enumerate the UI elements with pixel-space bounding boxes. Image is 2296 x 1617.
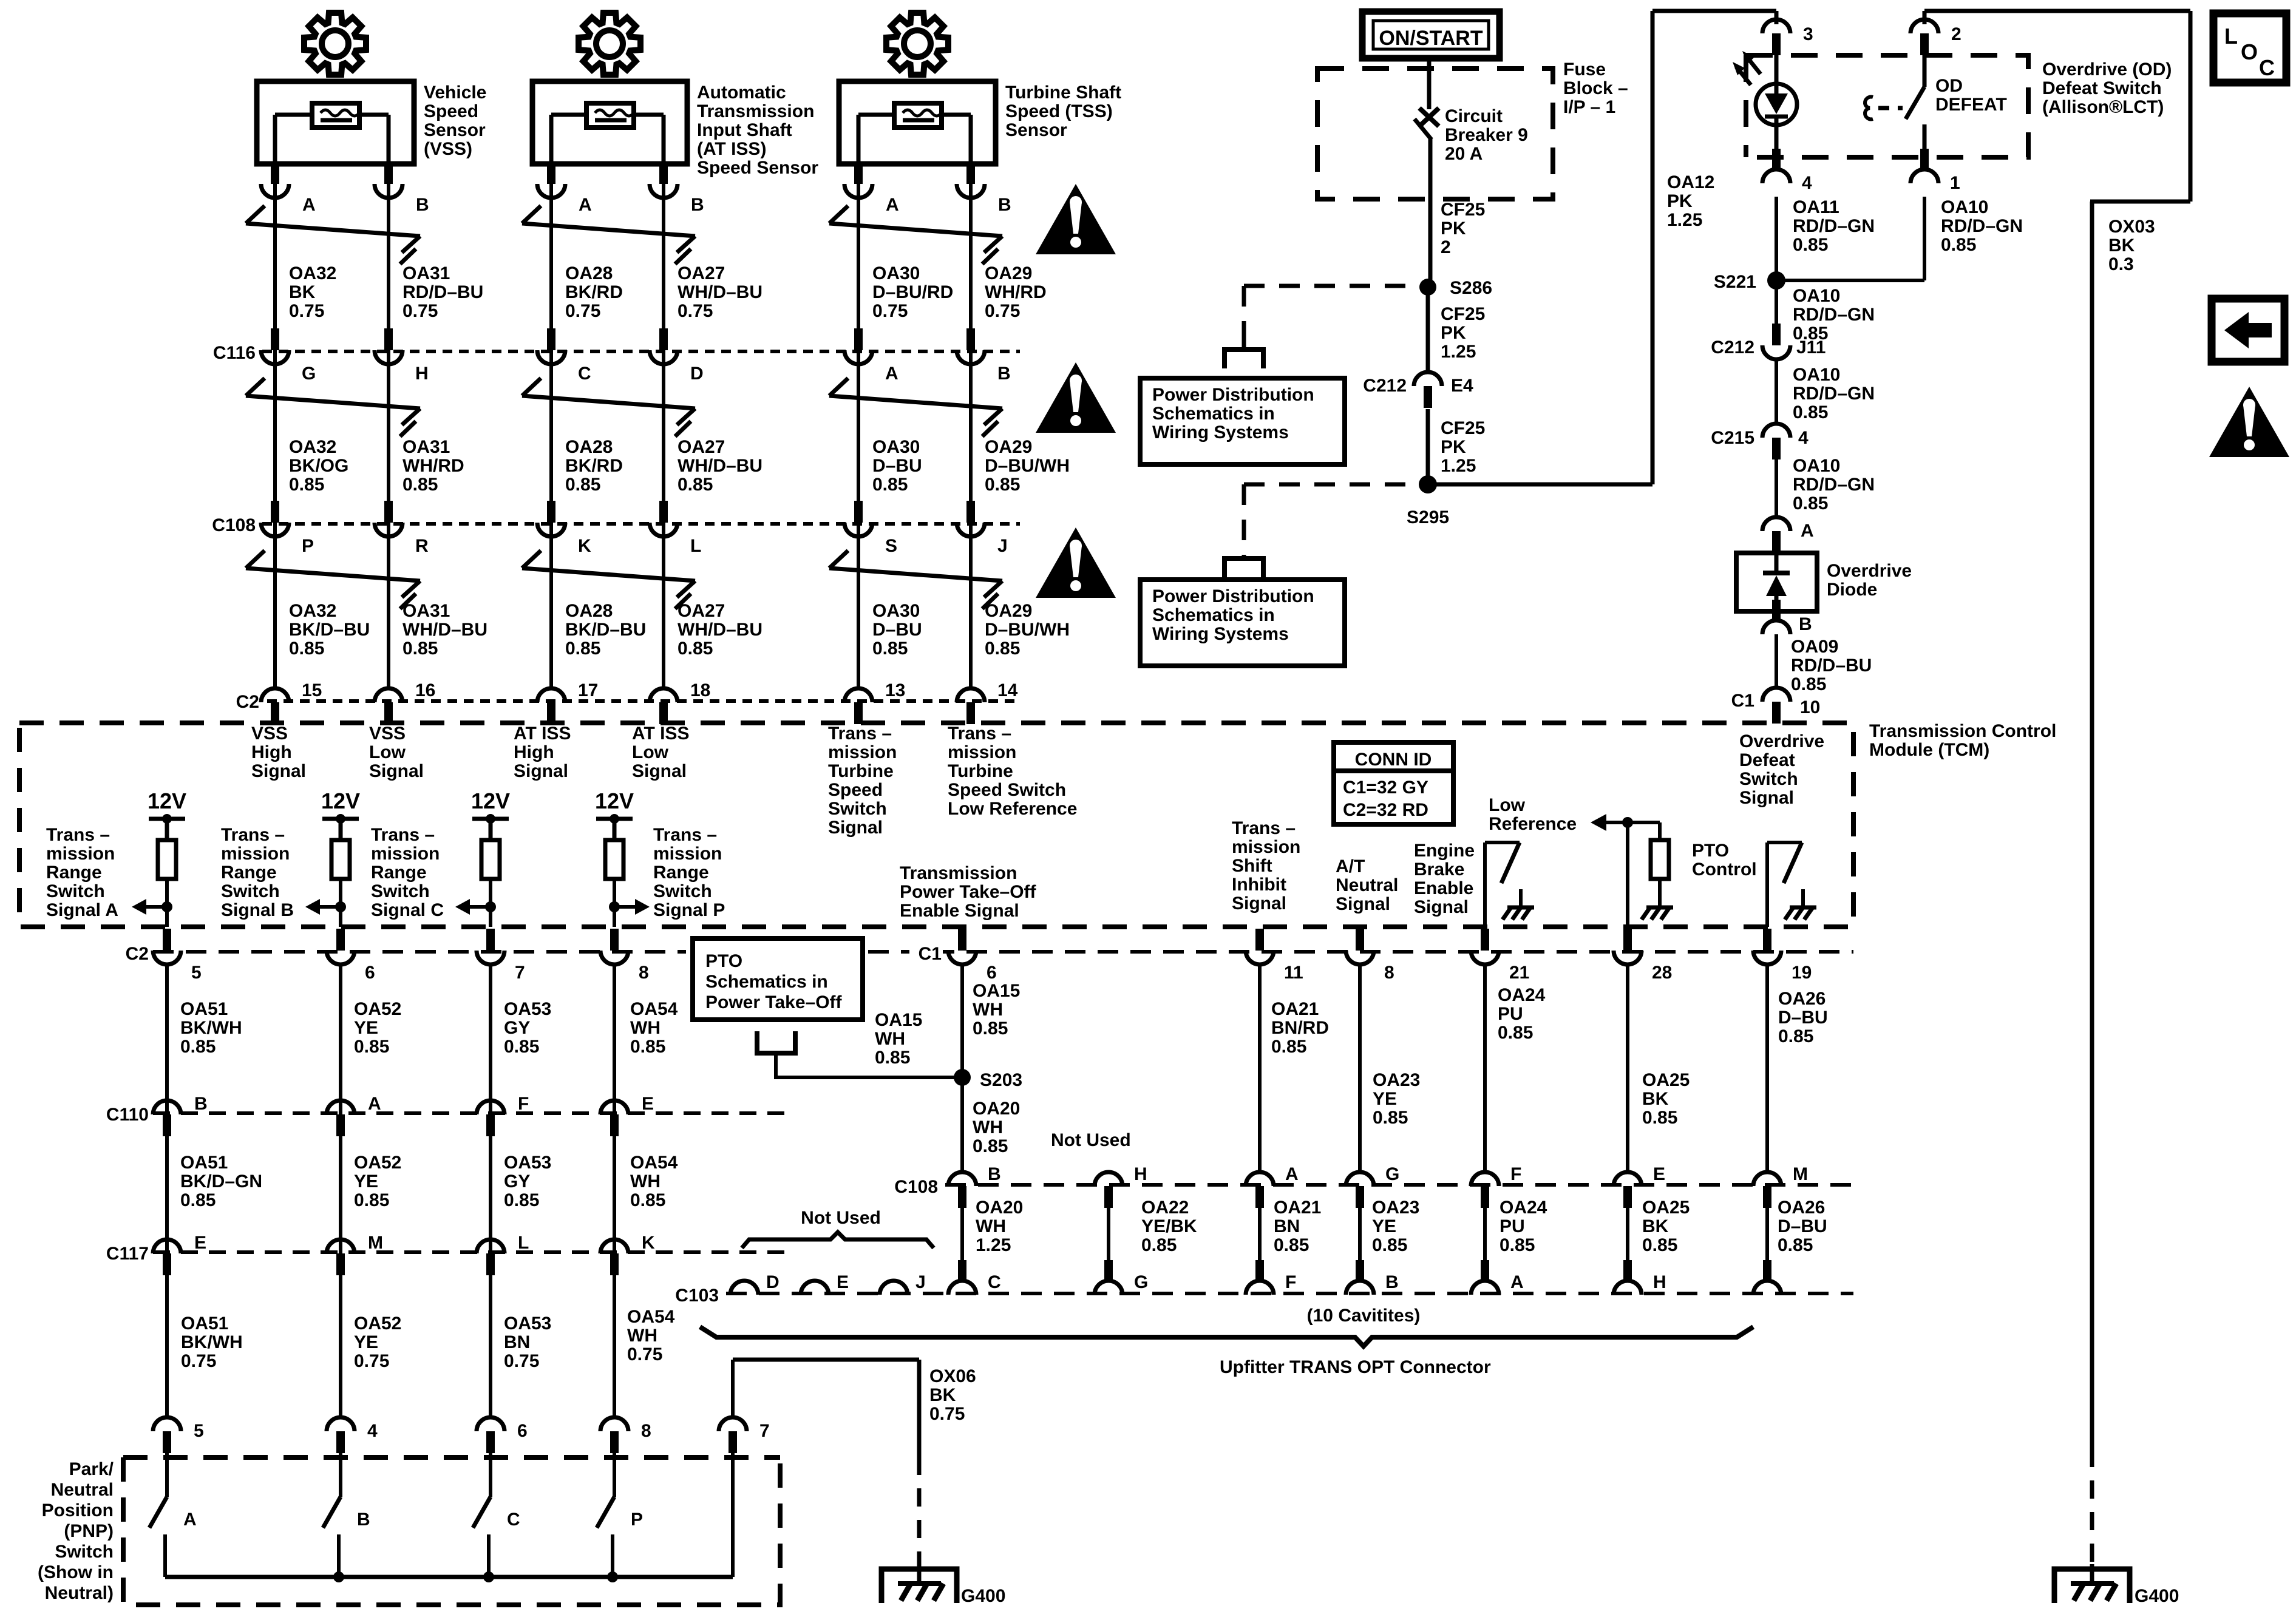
warning triangle 3 (1036, 527, 1116, 598)
wire OX06 horizontal (733, 1358, 919, 1362)
svg-text:Sensor: Sensor (1005, 120, 1067, 140)
wire label OA52 YE 0.85 (354, 999, 401, 1057)
wire label OA15 WH 0.85 (right) (973, 981, 1020, 1039)
wire label OA28 (lower) (565, 601, 646, 659)
wire label OA22 YE/BK 0.85 (1141, 1198, 1197, 1255)
wire label OA27 (middle) (678, 437, 763, 495)
wire S221 to C212 J11 (1775, 280, 1778, 333)
svg-text:OA21: OA21 (1271, 999, 1319, 1019)
wire from PTO bracket to S203 (776, 1053, 962, 1077)
PNP connector pin 6 (477, 1417, 528, 1453)
svg-text:Range: Range (46, 863, 102, 883)
svg-text:Fuse: Fuse (1563, 59, 1606, 80)
svg-text:OA10: OA10 (1793, 286, 1840, 306)
svg-text:OA27: OA27 (678, 263, 725, 283)
wire label OA29 (middle) (985, 437, 1070, 495)
svg-text:OA10: OA10 (1793, 365, 1840, 385)
svg-text:Switch: Switch (371, 881, 430, 901)
svg-text:BK/WH: BK/WH (181, 1332, 243, 1352)
svg-text:H: H (415, 364, 429, 384)
svg-text:0.85: 0.85 (973, 1019, 1008, 1039)
svg-text:D–BU: D–BU (872, 456, 922, 476)
svg-text:P: P (631, 1510, 643, 1530)
wire label OA20 WH 1.25 (976, 1198, 1023, 1255)
signal name PTO Control (1692, 841, 1757, 880)
svg-text:Switch: Switch (55, 1542, 114, 1562)
wire pin 4 to S221 (1775, 197, 1778, 280)
wire label OX03 BK 0.3 (2108, 217, 2155, 274)
ON/START power feed box (1362, 12, 1500, 58)
svg-text:PTO: PTO (705, 951, 742, 971)
wire S295 to top corner (1428, 483, 1652, 487)
Overdrive (OD) Defeat Switch label (2042, 59, 2172, 117)
svg-text:BK/D–BU: BK/D–BU (289, 620, 370, 640)
C1 label (bottom) (909, 941, 943, 965)
svg-text:0.85: 0.85 (985, 475, 1020, 495)
svg-text:0.85: 0.85 (1793, 235, 1828, 255)
wire OA26 run (C108 to C103) (1765, 1208, 1769, 1261)
svg-text:Switch: Switch (221, 881, 280, 901)
wire OA28 vertical run (549, 164, 553, 690)
svg-text:YE: YE (1372, 1216, 1396, 1236)
svg-text:ON/START: ON/START (1379, 27, 1483, 50)
wire label OX06 BK 0.75 (929, 1366, 976, 1424)
svg-text:YE: YE (354, 1018, 378, 1038)
svg-text:Speed (TSS): Speed (TSS) (1005, 101, 1113, 121)
svg-text:(PNP): (PNP) (64, 1521, 114, 1541)
svg-text:F: F (518, 1094, 529, 1114)
svg-text:C2=32 RD: C2=32 RD (1343, 800, 1428, 820)
svg-text:OX06: OX06 (929, 1366, 976, 1386)
svg-text:Overdrive: Overdrive (1827, 561, 1912, 581)
svg-text:Control: Control (1692, 859, 1757, 880)
svg-text:RD/D–BU: RD/D–BU (1791, 656, 1872, 676)
svg-text:0.85: 0.85 (1941, 235, 1976, 255)
svg-text:Trans –: Trans – (46, 825, 110, 845)
C108 lower pin M (1753, 1164, 1808, 1208)
wire OX06 vertical solid (917, 1360, 922, 1457)
svg-text:Inhibit: Inhibit (1232, 875, 1286, 895)
svg-text:Trans –: Trans – (221, 825, 285, 845)
svg-text:OA20: OA20 (973, 1099, 1020, 1119)
svg-text:Input Shaft: Input Shaft (697, 120, 792, 140)
svg-text:OA53: OA53 (504, 1153, 551, 1173)
ground G400 (right) (2054, 1564, 2179, 1606)
svg-text:C117: C117 (106, 1244, 149, 1264)
Overdrive Diode label (1827, 561, 1912, 600)
C103 pin H (1614, 1260, 1666, 1295)
svg-text:OA30: OA30 (872, 437, 920, 457)
CONN ID table (1334, 742, 1453, 824)
svg-text:Trans –: Trans – (1232, 818, 1296, 838)
svg-text:2: 2 (1441, 237, 1451, 257)
svg-text:0.75: 0.75 (627, 1344, 662, 1364)
C2 label (bottom) (118, 941, 150, 965)
OD DEFEAT label (1935, 76, 2007, 115)
wire label OA31 (upper) (402, 263, 483, 321)
connector C215 pin 4 (1711, 424, 1809, 459)
wire label OA21 BN/RD 0.85 (1271, 999, 1329, 1057)
sensor pin A connector (537, 162, 592, 215)
svg-text:WH: WH (630, 1018, 661, 1038)
svg-text:OA27: OA27 (678, 601, 725, 621)
wire label CF25 PK 2 (1441, 200, 1485, 257)
svg-text:OA54: OA54 (630, 999, 678, 1019)
svg-text:OA24: OA24 (1500, 1198, 1547, 1218)
C108 pin P (261, 501, 314, 556)
C2/C1 row pin 28 at x=2681 (1614, 929, 1672, 983)
svg-text:Park/: Park/ (69, 1459, 114, 1479)
svg-text:Schematics in: Schematics in (1152, 404, 1275, 424)
svg-text:RD/D–GN: RD/D–GN (1793, 475, 1875, 495)
svg-text:Power Take–Off: Power Take–Off (900, 882, 1037, 902)
svg-text:Switch: Switch (1739, 769, 1798, 789)
wire label OA26 D-BU 0.85 (2) (1778, 1198, 1827, 1255)
svg-text:5: 5 (194, 1421, 204, 1441)
twisted-pair symbol row2 group 1 (246, 378, 420, 436)
svg-text:CF25: CF25 (1441, 200, 1485, 220)
fuse block dashed box (1317, 69, 1553, 199)
svg-text:M: M (368, 1233, 383, 1253)
signal name Overdrive Defeat Switch Signal (1739, 731, 1824, 808)
connector row C108 (lower) dashed line (945, 1183, 1853, 1187)
svg-text:Signal: Signal (1414, 897, 1469, 917)
svg-text:Low: Low (1489, 795, 1526, 815)
svg-text:0.85: 0.85 (1793, 493, 1828, 514)
engine brake enable switch to ground (1485, 842, 1534, 927)
PNP connector pin 8 (600, 1417, 651, 1453)
PNP switch name label (38, 1459, 114, 1603)
svg-text:BN: BN (504, 1332, 530, 1352)
PNP switch blade A (149, 1452, 197, 1577)
svg-text:S: S (885, 536, 897, 556)
svg-text:D: D (766, 1272, 779, 1292)
svg-text:D–BU: D–BU (1778, 1216, 1827, 1236)
svg-text:Diode: Diode (1827, 580, 1877, 600)
svg-text:0.85: 0.85 (1274, 1235, 1309, 1255)
connector row C103 dashed line (726, 1292, 1853, 1295)
PNP common bus wire (165, 1575, 733, 1579)
wire diode B to C1 pin 10 (1775, 634, 1778, 687)
svg-text:0.85: 0.85 (1373, 1108, 1408, 1128)
svg-text:RD/D–GN: RD/D–GN (1793, 216, 1875, 236)
svg-text:OA30: OA30 (872, 601, 920, 621)
svg-text:WH: WH (627, 1326, 657, 1346)
svg-text:L: L (518, 1233, 529, 1253)
svg-text:PU: PU (1498, 1004, 1523, 1024)
wire OA21 run (C108 to C103) (1258, 1208, 1262, 1261)
svg-text:G400: G400 (961, 1586, 1005, 1606)
svg-text:C2: C2 (236, 692, 259, 712)
C103 pin G (1095, 1260, 1148, 1295)
svg-text:OA10: OA10 (1793, 456, 1840, 476)
splice S295 (1407, 475, 1449, 527)
wire label OA10 RD/D-GN 0.85 (pin1) (1941, 197, 2023, 255)
svg-text:18: 18 (690, 680, 710, 700)
svg-text:YE/BK: YE/BK (1141, 1216, 1197, 1236)
C108 pin L (650, 501, 701, 556)
svg-text:14: 14 (997, 680, 1018, 700)
svg-text:OA51: OA51 (181, 1314, 228, 1334)
svg-text:A: A (579, 195, 592, 215)
svg-text:BN/RD: BN/RD (1271, 1018, 1329, 1038)
low reference arrow and node (1591, 814, 1660, 927)
svg-text:OD: OD (1935, 76, 1963, 96)
svg-text:0.75: 0.75 (181, 1351, 216, 1371)
svg-text:BK/D–GN: BK/D–GN (180, 1171, 262, 1192)
svg-text:Transmission Control: Transmission Control (1869, 721, 2056, 741)
svg-text:C212: C212 (1711, 337, 1754, 358)
wire pin 1 to S221 (1923, 197, 1926, 280)
wire pin3 stub to LED (1775, 55, 1779, 85)
svg-text:Turbine: Turbine (828, 761, 894, 781)
PTO pull-up resistor to ground (1642, 840, 1673, 920)
svg-text:PK: PK (1441, 219, 1466, 239)
svg-text:C116: C116 (213, 343, 256, 363)
svg-text:Schematics in: Schematics in (705, 972, 828, 992)
sensor pin A connector (261, 162, 316, 215)
signal name Engine Brake Enable Signal (1414, 841, 1475, 917)
svg-text:P: P (302, 536, 314, 556)
wire OX03 vertical dashed (2090, 1449, 2094, 1564)
svg-text:D: D (690, 364, 704, 384)
PNP switch blade P (597, 1452, 643, 1577)
svg-text:Signal: Signal (1739, 788, 1794, 808)
C2/C1 row pin 8 at x=1012 (600, 929, 649, 983)
park/neutral position switch dashed box (123, 1457, 780, 1605)
wire label OA31 (middle) (402, 437, 464, 495)
svg-text:BK/RD: BK/RD (565, 456, 623, 476)
svg-text:OX03: OX03 (2108, 217, 2155, 237)
svg-text:C: C (578, 364, 591, 384)
C108 lower pin G (1346, 1164, 1399, 1208)
svg-text:BK/WH: BK/WH (180, 1018, 242, 1038)
svg-text:OA51: OA51 (180, 1153, 228, 1173)
wire OA26 vertical run (TCM to C108) (1765, 965, 1769, 1171)
C103 pin F (1246, 1260, 1296, 1295)
signal name VSS Low Signal (369, 724, 424, 781)
svg-text:S221: S221 (1714, 272, 1756, 292)
wire OA21 vertical run (TCM to C108) (1258, 965, 1262, 1171)
C2/C1 row pin 6 at x=1585 (948, 929, 997, 983)
connector pin 4 (1762, 149, 1812, 193)
svg-text:B: B (998, 195, 1011, 215)
wire label OA27 (lower) (678, 601, 763, 659)
svg-text:0.85: 0.85 (1498, 1023, 1533, 1043)
svg-text:Wiring Systems: Wiring Systems (1152, 624, 1289, 644)
wire label OA28 (middle) (565, 437, 623, 495)
svg-text:BN: BN (1274, 1216, 1300, 1236)
svg-text:Automatic: Automatic (697, 83, 786, 103)
C103 pin A (1471, 1260, 1524, 1295)
wire label OA10 RD/D-GN 0.85 (S221) (1793, 286, 1875, 344)
svg-text:Position: Position (42, 1500, 114, 1520)
svg-text:Speed: Speed (828, 780, 883, 800)
svg-text:Speed Sensor: Speed Sensor (697, 158, 818, 178)
svg-text:Turbine Shaft: Turbine Shaft (1005, 83, 1121, 103)
signal name Transmission Turbine Speed Switch Low Reference (948, 724, 1077, 819)
sensor pin B connector (650, 162, 704, 215)
svg-text:YE: YE (354, 1332, 378, 1352)
svg-text:Range: Range (371, 863, 427, 883)
svg-text:Upfitter TRANS OPT Connector: Upfitter TRANS OPT Connector (1220, 1357, 1491, 1377)
svg-text:Not Used: Not Used (1051, 1130, 1131, 1150)
svg-text:0.85: 0.85 (1793, 402, 1828, 422)
C108 lower pin B (948, 1164, 1001, 1208)
svg-text:WH/RD: WH/RD (402, 456, 464, 476)
wire OA27 vertical run (662, 164, 665, 690)
svg-text:0.85: 0.85 (630, 1190, 665, 1210)
wire OA51 vertical run to PNP switch (165, 965, 169, 1417)
svg-text:WH/RD: WH/RD (985, 282, 1047, 302)
splice S221 (1714, 271, 1785, 292)
wire OA15/OA20 vertical run (960, 965, 964, 1171)
wire label CF25 PK 1.25 (lower) (1441, 418, 1485, 476)
connector row C110 dashed line (153, 1111, 789, 1115)
svg-text:VSS: VSS (251, 724, 288, 744)
svg-text:GY: GY (504, 1018, 530, 1038)
wire label OA52 YE 0.75 (354, 1314, 401, 1371)
svg-text:0.85: 0.85 (504, 1190, 539, 1210)
svg-text:Overdrive: Overdrive (1739, 731, 1824, 751)
wire label OA52 YE 0.85 (2) (354, 1153, 401, 1210)
C2 pin 16 (375, 680, 435, 724)
svg-text:BK: BK (289, 282, 316, 302)
C116 pin C (537, 328, 591, 384)
wire label OA51 BK/D-GN 0.85 (180, 1153, 262, 1210)
wire label OA20 WH 0.85 (973, 1099, 1020, 1156)
svg-text:Signal: Signal (514, 761, 568, 781)
twisted-pair symbol row3 group 3 (829, 551, 1002, 609)
svg-text:H: H (1134, 1164, 1147, 1184)
svg-text:0.75: 0.75 (289, 301, 324, 321)
svg-text:J11: J11 (1796, 337, 1826, 358)
wire pin7 to OX06 corner (731, 1360, 735, 1417)
connector row C2/C1 dashed line (153, 950, 686, 954)
svg-text:Signal: Signal (251, 761, 306, 781)
vehicle speed sensor (VSS) with gear icon (257, 13, 414, 164)
C108 lower pin A (1246, 1164, 1299, 1208)
signal name Transmission Turbine Speed Switch Signal (828, 724, 897, 838)
svg-text:Trans –: Trans – (948, 724, 1011, 744)
svg-text:B: B (194, 1094, 208, 1114)
svg-text:OA26: OA26 (1778, 989, 1826, 1009)
svg-text:0.75: 0.75 (402, 301, 438, 321)
wire label OA51 BK/WH 0.75 (181, 1314, 243, 1371)
svg-text:OA52: OA52 (354, 1153, 401, 1173)
wire ON/START to breaker (1427, 58, 1432, 109)
svg-text:J: J (997, 536, 1008, 556)
svg-text:Transmission: Transmission (697, 101, 814, 121)
svg-text:OA12: OA12 (1667, 172, 1714, 192)
svg-text:Trans –: Trans – (371, 825, 435, 845)
C2/C1 row pin 6 at x=561 (327, 929, 375, 983)
C116 pin G (261, 328, 316, 384)
wire OX03 vertical solid (2090, 202, 2094, 1449)
svg-text:(Allison®LCT): (Allison®LCT) (2042, 97, 2164, 117)
svg-text:OA31: OA31 (402, 263, 450, 283)
svg-text:F: F (1510, 1164, 1521, 1184)
connector C1 pin 10 (1731, 688, 1821, 724)
wire down to pin 3 (1775, 11, 1779, 24)
wire label OA53 BN 0.75 (504, 1314, 551, 1371)
svg-text:G: G (302, 364, 316, 384)
svg-text:0.75: 0.75 (872, 301, 908, 321)
svg-text:13: 13 (885, 680, 905, 700)
svg-text:4: 4 (367, 1421, 378, 1441)
svg-text:0.85: 0.85 (875, 1048, 910, 1068)
wire label OA53 GY 0.85 (504, 999, 551, 1057)
svg-text:0.85: 0.85 (402, 639, 438, 659)
svg-text:Transmission: Transmission (900, 863, 1017, 883)
svg-text:21: 21 (1509, 963, 1529, 983)
C110 pin E (600, 1094, 654, 1136)
wire C215 to diode pin A (1775, 459, 1778, 517)
svg-text:YE: YE (354, 1171, 378, 1192)
svg-text:3: 3 (1803, 24, 1813, 44)
circuit breaker 9 (1415, 108, 1439, 286)
svg-text:0.75: 0.75 (504, 1351, 539, 1371)
svg-text:0.85: 0.85 (630, 1037, 665, 1057)
svg-text:Engine: Engine (1414, 841, 1475, 861)
svg-text:8: 8 (639, 963, 649, 983)
signal name AT ISS High Signal (514, 724, 571, 781)
svg-text:12V: 12V (321, 788, 360, 813)
C2/C1 row pin 11 at x=2075 (1246, 929, 1303, 983)
svg-text:17: 17 (578, 680, 598, 700)
svg-text:Range: Range (653, 863, 709, 883)
PNP connector pin 7 (719, 1417, 770, 1453)
svg-text:OA53: OA53 (504, 999, 551, 1019)
svg-text:S286: S286 (1450, 278, 1492, 298)
connector pin 3 (1762, 19, 1813, 55)
wire OA30 vertical run (857, 164, 860, 690)
wire label OA53 GY 0.85 (2) (504, 1153, 551, 1210)
connector row C108 dashed line (262, 522, 1020, 526)
svg-text:A: A (183, 1510, 197, 1530)
svg-text:Defeat: Defeat (1739, 750, 1795, 770)
svg-text:OA53: OA53 (504, 1314, 551, 1334)
Transmission Range Switch Signal P label (653, 825, 725, 920)
C108 pin J (957, 501, 1008, 556)
svg-text:12V: 12V (471, 788, 510, 813)
svg-text:BK/RD: BK/RD (565, 282, 623, 302)
wire label OA23 YE 0.85 (2) (1372, 1198, 1419, 1255)
svg-text:A: A (1510, 1272, 1524, 1292)
Fuse Block - I/P - 1 label (1563, 59, 1628, 117)
wire OA20 run (C108 to C103) (960, 1208, 964, 1261)
C117 pin E (153, 1233, 206, 1275)
wire OA25 vertical run (TCM to C108) (1626, 965, 1629, 1171)
svg-text:K: K (578, 536, 591, 556)
svg-text:K: K (642, 1233, 655, 1253)
svg-text:C: C (507, 1510, 520, 1530)
svg-text:4: 4 (1802, 173, 1812, 193)
back arrow reference box (2212, 299, 2284, 362)
C108 lower pin E (1614, 1164, 1665, 1208)
svg-text:G: G (1134, 1272, 1148, 1292)
svg-text:D–BU/WH: D–BU/WH (985, 620, 1070, 640)
svg-text:0.75: 0.75 (565, 301, 600, 321)
svg-text:OA54: OA54 (627, 1307, 675, 1327)
svg-text:7: 7 (759, 1421, 770, 1441)
wire OA52 vertical run to PNP switch (339, 965, 342, 1417)
svg-text:OA31: OA31 (402, 601, 450, 621)
svg-text:0.75: 0.75 (929, 1404, 965, 1424)
PNP bus junction (333, 1571, 344, 1582)
svg-text:OA51: OA51 (180, 999, 228, 1019)
wire OA23 run (C108 to C103) (1358, 1208, 1362, 1261)
